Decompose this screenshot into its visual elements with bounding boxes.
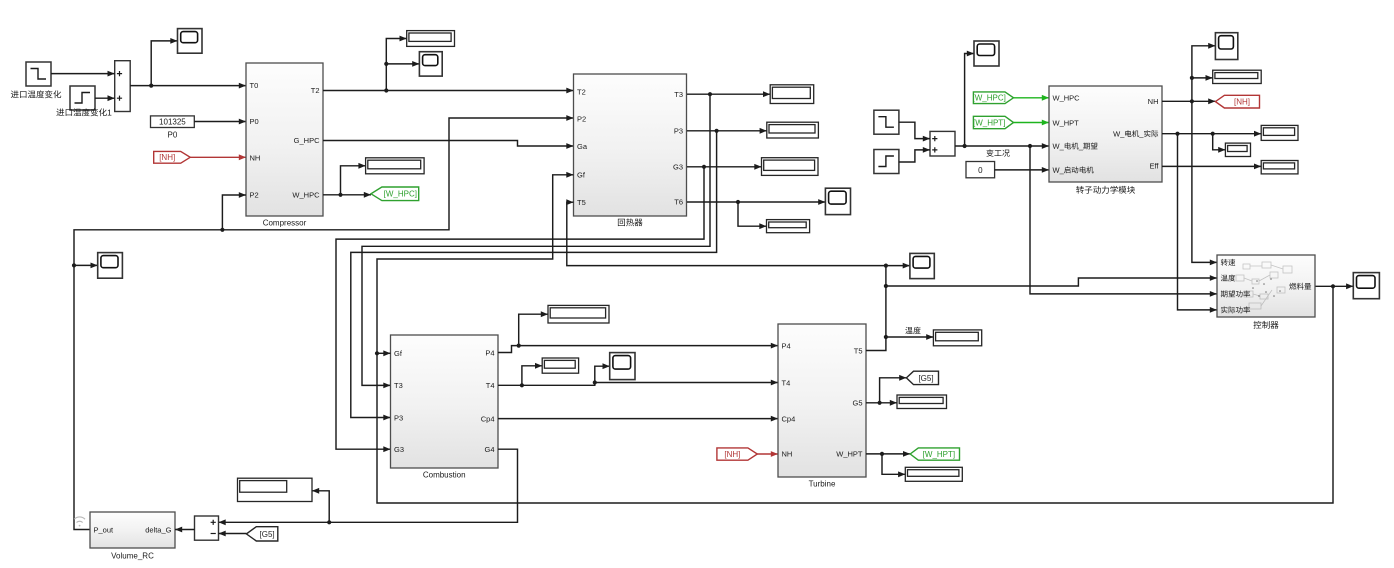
svg-text:P3: P3 xyxy=(394,413,403,422)
wire step4 -> sum2 xyxy=(899,147,930,162)
display T4 xyxy=(542,358,578,373)
svg-text:P3: P3 xyxy=(674,127,683,136)
scope T6 xyxy=(825,188,850,214)
svg-text:[W_HPC]: [W_HPC] xyxy=(384,190,417,199)
svg-text:[W_HPC]: [W_HPC] xyxy=(973,94,1006,103)
svg-text:[G5]: [G5] xyxy=(918,374,933,383)
wire 控制器.燃料量 -> scope, 回热器.Gf and Combustion.Gf (long feedback) xyxy=(375,172,1353,503)
svg-text:[W_HPT]: [W_HPT] xyxy=(973,118,1005,127)
控制器 internal preview (faint) xyxy=(1236,262,1292,309)
step source 进口温度变化 xyxy=(26,62,51,86)
wire Combustion.G4 -> sum, branch to display xyxy=(219,449,518,525)
From tag [NH] (to compressor) xyxy=(154,151,191,163)
scope T2 xyxy=(419,52,442,76)
display G3 xyxy=(762,158,819,176)
wire 回热器.T6 -> scope, branch to display xyxy=(687,199,825,229)
svg-text:NH: NH xyxy=(250,153,261,162)
scope NH xyxy=(1215,33,1237,60)
svg-text:[W_HPT]: [W_HPT] xyxy=(923,450,955,459)
scope T0 xyxy=(178,29,203,54)
display W_HPC xyxy=(366,158,425,174)
scope 燃料量 xyxy=(1353,273,1379,299)
wire [W_HPT] -> 转子.W_HPT (green) xyxy=(1014,120,1050,126)
scope 变工况 xyxy=(974,41,999,66)
display T6 xyxy=(767,220,810,233)
display P3 xyxy=(767,122,819,138)
label 变工况 (wire label) xyxy=(986,149,993,156)
svg-text:Compressor: Compressor xyxy=(263,219,307,228)
svg-text:P_out: P_out xyxy=(94,525,115,534)
svg-text:0: 0 xyxy=(978,166,983,175)
From tag [NH] (to turbine) xyxy=(717,448,757,460)
scope T5 xyxy=(910,253,934,278)
svg-text:[G5]: [G5] xyxy=(260,530,275,539)
svg-text:Combustion: Combustion xyxy=(423,471,466,480)
svg-text:G5: G5 xyxy=(852,399,862,408)
constant 0 xyxy=(966,162,995,178)
subsystem 控制器 (controller) xyxy=(1217,255,1315,329)
svg-text:delta_G: delta_G xyxy=(145,525,171,534)
Goto tag [W_HPC] (green) xyxy=(371,187,419,201)
svg-text:T3: T3 xyxy=(674,90,683,99)
svg-text:G4: G4 xyxy=(484,445,494,454)
svg-text:NH: NH xyxy=(782,450,793,459)
wire Turbine.G5 -> display, branch to Goto [G5] xyxy=(866,375,906,406)
wire 回热器.T3 -> display, branch down to Combustion.T3 xyxy=(362,91,770,388)
subsystem Combustion xyxy=(391,335,499,480)
svg-text:G3: G3 xyxy=(673,163,683,172)
wire step1 -> sum xyxy=(51,71,115,77)
label 进口温度变化1 xyxy=(56,109,64,117)
svg-text:W_HPC: W_HPC xyxy=(292,191,320,200)
From tag [W_HPT] (green) xyxy=(973,116,1014,128)
wire step2 -> sum xyxy=(95,95,115,101)
display T2 xyxy=(407,31,455,47)
sum block Add1 (inlet temperature) xyxy=(115,61,131,112)
display small W_电机_实际 xyxy=(1225,143,1250,156)
wire sum2 -> 转子.W_电机_期望, branches to scope and 控制器.期望功率 xyxy=(955,51,1217,297)
svg-text:T5: T5 xyxy=(854,346,863,355)
wire sum3 -> Volume_RC.delta_G xyxy=(175,527,195,533)
svg-text:W_HPT: W_HPT xyxy=(1053,118,1080,127)
svg-text:Turbine: Turbine xyxy=(809,480,836,489)
svg-text:W_HPT: W_HPT xyxy=(836,450,863,459)
subsystem Turbine xyxy=(778,324,866,489)
svg-text:[NH]: [NH] xyxy=(1234,98,1250,107)
wire sum -> Compressor.T0, branch to scope xyxy=(130,38,246,89)
svg-text:T6: T6 xyxy=(674,198,683,207)
svg-text:Volume_RC: Volume_RC xyxy=(111,552,154,561)
step source 进口温度变化1 xyxy=(70,86,95,110)
display 温度 T5 xyxy=(933,330,981,346)
svg-text:T2: T2 xyxy=(577,87,586,96)
svg-text:Ga: Ga xyxy=(577,142,588,151)
display NH xyxy=(1213,70,1262,83)
svg-text:T5: T5 xyxy=(577,198,586,207)
constant P0 = 101325 xyxy=(151,116,195,128)
wire P0 constant -> Compressor.P0 xyxy=(194,119,246,125)
subsystem 回热器 (recuperator) xyxy=(574,74,687,226)
svg-text:W_HPC: W_HPC xyxy=(1053,94,1081,103)
Goto tag [NH] (red) xyxy=(1215,95,1259,108)
svg-text:P2: P2 xyxy=(577,114,586,123)
svg-text:P0: P0 xyxy=(250,117,259,126)
wire [NH] -> Turbine.NH (red) xyxy=(756,451,778,457)
display Eff xyxy=(1261,161,1298,174)
svg-text:NH: NH xyxy=(1148,97,1159,106)
svg-text:T4: T4 xyxy=(486,381,495,390)
svg-text:Gf: Gf xyxy=(394,349,403,358)
svg-text:T3: T3 xyxy=(394,381,403,390)
Goto tag [G5] xyxy=(906,371,938,384)
wire 转子.Eff -> display xyxy=(1162,164,1261,170)
wire step3 -> sum2 xyxy=(899,122,930,141)
svg-text:Cp4: Cp4 xyxy=(481,414,495,423)
svg-text:T4: T4 xyxy=(782,378,791,387)
display delta_G xyxy=(238,478,313,501)
wire 0 -> 转子.W_启动电机 xyxy=(995,167,1049,173)
wire 回热器.G3 -> display, branch down to Combustion.G3 xyxy=(336,164,762,452)
svg-text:P0: P0 xyxy=(168,131,178,140)
subsystem Volume_RC (flipped) xyxy=(90,512,175,561)
svg-text:P2: P2 xyxy=(250,191,259,200)
wire 回热器.P3 -> display, branch down to Combustion.P3 xyxy=(351,128,767,421)
sum block Add3 (flipped, + -) xyxy=(195,516,219,540)
Goto tag [W_HPT] (green) xyxy=(910,448,959,460)
svg-text:T0: T0 xyxy=(250,81,259,90)
svg-text:[NH]: [NH] xyxy=(724,450,740,459)
scope P_out xyxy=(98,253,123,279)
wire Turbine.W_HPT -> Goto [W_HPT], branch to display xyxy=(866,451,910,477)
wire Compressor.G_HPC -> 回热器.Ga xyxy=(323,141,574,149)
svg-text:G3: G3 xyxy=(394,445,404,454)
wire Combustion.Cp4 -> Turbine.Cp4 xyxy=(498,416,778,422)
svg-text:P4: P4 xyxy=(782,341,791,350)
svg-text:P4: P4 xyxy=(485,348,494,357)
svg-text:Gf: Gf xyxy=(577,171,586,180)
wire [NH] -> Compressor.NH (red) xyxy=(190,154,246,160)
wire Volume_RC.P_out -> 回热器.P2, branches to scope and Compressor.P2 xyxy=(72,115,574,529)
From tag [W_HPC] (green) xyxy=(973,92,1014,104)
svg-text:G_HPC: G_HPC xyxy=(294,136,320,145)
svg-text:Eff: Eff xyxy=(1149,161,1159,170)
subsystem Compressor xyxy=(246,63,323,228)
svg-text:Cp4: Cp4 xyxy=(782,414,796,423)
subsystem 转子动力学模块 (rotor dynamics) xyxy=(1049,86,1162,194)
wire 转子.NH -> Goto [NH], scope, display, 控制器.转速 xyxy=(1162,43,1217,265)
display W_HPT xyxy=(905,467,962,481)
step source (变工况 down) xyxy=(874,150,899,174)
sum block Add2 (变工况) xyxy=(930,131,955,156)
scope T4 xyxy=(610,353,635,380)
step source (变工况 up) xyxy=(874,110,899,134)
wire Compressor.W_HPC -> Goto [W_HPC], branch to display xyxy=(323,163,371,198)
wire [G5] -> sum3 minus xyxy=(219,531,247,537)
wire Turbine.T5 -> 回热器.T5, branches to 温度 display, 控制器.温度, scope xyxy=(566,199,1217,350)
signal logging badge (wifi arcs) xyxy=(74,517,85,527)
From tag [G5] (flipped) xyxy=(246,527,277,541)
display P4 xyxy=(548,305,609,323)
display W_电机_实际 xyxy=(1261,125,1298,140)
label 温度 (wire label) xyxy=(905,327,912,334)
display G5 xyxy=(897,395,947,409)
svg-text:[NH]: [NH] xyxy=(159,153,175,162)
label 进口温度变化 xyxy=(11,91,19,99)
wire Combustion.P4 -> Turbine.P4, branch to display xyxy=(498,311,778,352)
display T3 xyxy=(770,85,814,104)
wire Combustion.T4 -> Turbine.T4, branches to display and scope xyxy=(498,363,778,388)
wire [W_HPC] -> 转子.W_HPC (green) xyxy=(1014,95,1050,101)
wire 转子.W_电机_实际 -> display, small display, 控制器.实际功率 xyxy=(1162,131,1261,313)
svg-text:101325: 101325 xyxy=(159,118,186,127)
wire Compressor.T2 -> 回热器.T2, branches to display and scope xyxy=(323,36,574,94)
svg-text:T2: T2 xyxy=(311,86,320,95)
